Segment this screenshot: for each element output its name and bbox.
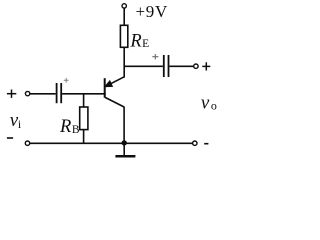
- wire: RB top lead: [83, 94, 85, 107]
- wire: supply to RE: [123, 8, 125, 25]
- transistor Q1 emitter lead: [106, 77, 125, 87]
- svg-text:o: o: [211, 99, 217, 113]
- wire: RB bottom lead: [83, 130, 85, 144]
- wire: collector down to ground rail: [123, 107, 125, 144]
- output terminal +: [194, 64, 198, 68]
- + sign at input terminal: [7, 90, 16, 98]
- wire: C1 to base: [62, 93, 106, 95]
- wire: C2 to output terminal: [169, 65, 193, 67]
- svg-text:R: R: [129, 31, 141, 51]
- polarity + of C1: [64, 78, 69, 83]
- capacitor C1 left plate: [56, 83, 58, 103]
- minus sign at input (bottom left): [7, 137, 13, 139]
- transistor Q1 emitter arrow: [105, 81, 112, 87]
- wire: output node to capacitor C2: [124, 65, 163, 67]
- capacitor C2 left plate: [163, 55, 165, 77]
- wire: ground rail: [30, 142, 193, 144]
- resistor RB: [80, 107, 88, 130]
- transistor Q1 collector lead: [105, 97, 124, 107]
- node: collector/rail junction dot: [122, 140, 127, 145]
- wire: input terminal to capacitor C1: [30, 93, 56, 95]
- svg-text:B: B: [72, 124, 80, 136]
- capacitor C1 right plate: [60, 83, 62, 103]
- svg-text:E: E: [142, 38, 149, 50]
- wire: rail to ground: [123, 143, 125, 156]
- + sign at output terminal: [202, 62, 210, 70]
- polarity + of C2: [152, 54, 158, 59]
- resistor RE: [120, 25, 127, 47]
- ground: [115, 155, 135, 158]
- input terminal top: [25, 91, 29, 95]
- svg-text:+9V: +9V: [136, 2, 168, 21]
- bottom terminal right: [193, 141, 197, 145]
- transistor Q1 base bar: [104, 78, 106, 98]
- svg-text:v: v: [201, 92, 210, 113]
- wire: RE to emitter junction: [123, 47, 125, 77]
- svg-text:R: R: [59, 117, 71, 137]
- capacitor C2 right plate: [168, 55, 170, 77]
- bottom terminal left: [25, 141, 29, 145]
- power terminal +9V: [122, 4, 126, 8]
- minus sign at output (bottom right): [204, 143, 208, 145]
